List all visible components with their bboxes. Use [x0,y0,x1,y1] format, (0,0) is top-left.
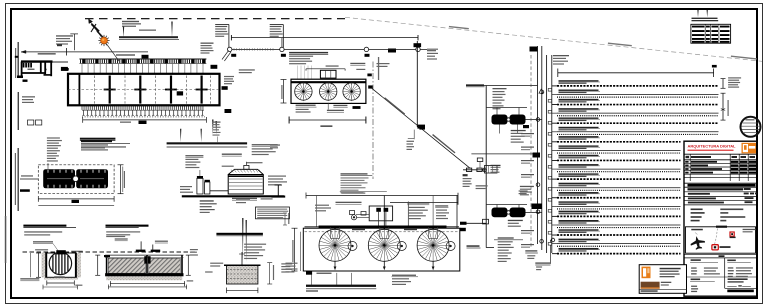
tank section center divider [146,255,148,273]
pozo left vdim [38,253,40,277]
pozo small text above ground [35,249,48,250]
leader text cluster top [122,21,139,22]
basin right label box 3 [225,109,232,113]
tank section riser label 2 [155,241,168,242]
tank section subtext [106,231,140,232]
riser dashed line left [530,55,532,247]
tank section under-shadow stipple [106,277,182,281]
map airplane symbol [689,235,706,251]
pipe run 3 heavy dashed line [557,104,719,106]
aerator fan 1 [295,83,312,100]
pump 2 labels below [508,220,523,221]
riser lower label box [532,204,543,210]
pozo title underlined [23,225,66,227]
tank section bottom dims [110,283,184,285]
pozo tapa label underlined [33,241,53,242]
riser pipe 3 [546,55,548,253]
stamp circle [741,117,761,137]
clarifier gear housing [369,206,392,221]
tee element stem [277,185,279,196]
blower skid dashed outline [38,165,114,194]
bracket 1 labels [728,77,741,78]
revision table header row [684,159,757,161]
clarifier stem verticals [316,196,318,227]
pump 1 drain stems [499,125,501,134]
clarifier small wheel 2 [397,242,406,251]
clarifier housing lines [356,214,369,216]
blower dim text box [72,200,80,203]
digester interconnect pipe [210,190,228,192]
pipe run 8 thin line [557,149,681,151]
ground dashed datum line [23,251,197,253]
label box connector [65,68,69,71]
aerator fan 2 [320,83,337,100]
pretreatment connector channel [53,61,69,63]
digester pump skid left [197,178,203,194]
basin left label box [61,67,68,71]
fence node circle 1 [228,47,232,51]
leader spikes into footing [242,218,243,262]
aerator fan 3 [343,83,360,100]
clarifier upper dim second segment [340,191,387,193]
pipe run 11 heavy dashed line [557,178,681,180]
pipe run 11 label [559,173,599,174]
clarifier labels left rows [336,202,362,203]
terrain line label right [731,56,757,60]
digester detail title underlined [167,142,248,144]
blower unit 1 body [43,169,75,188]
stamp orange logo square [642,267,651,279]
pump 2 discharge to riser [526,211,543,213]
vertical pipe line x417 [416,41,418,127]
stamp small text right of bar [661,282,672,283]
pump 1A body [492,115,508,125]
clarifier deck beam [305,226,460,228]
clarifier small wheel 1 [348,242,357,251]
pipe run 2 label [559,90,599,91]
tank section top black bars [136,250,146,252]
suction box left [460,222,467,225]
tank label box right edge [368,85,373,88]
digester dome [228,169,263,174]
junction bracket and labels [413,130,415,140]
clarifier small wheel 3 [446,242,455,251]
footing anchor rod [241,252,243,265]
aeration basin bottom drops [82,110,203,115]
pipe run 5 label [559,117,599,118]
terrain line label mid2 [608,43,632,47]
north arrow leader diagonal [89,20,119,61]
blower leader stem [47,163,49,169]
tank section left vdim [97,255,99,275]
north arrow strokes [92,24,100,32]
riser pipe 1 [537,46,539,244]
left margin vertical text upper [18,42,19,78]
tank bottom dimension line [289,119,366,121]
blower leader text column [47,137,60,138]
clarifier second dim line [390,201,458,203]
sun symbol orange starburst [98,35,109,46]
pozo black cap [56,250,66,254]
footing right vdim [269,263,271,284]
process vertical tail [485,230,487,248]
basin title subtext [81,146,126,147]
digester left label rows [185,155,203,156]
pipe run 4 thin line [557,112,719,114]
riser mid label box [533,153,541,158]
stamp brown signature bar [641,282,660,289]
pipe run 16 thin line [557,224,681,226]
pozo cylinder circle [49,252,71,274]
riser branch label clusters [521,133,534,248]
basin internal label box [177,91,183,95]
clarifier small rect left [350,211,355,215]
pozo ground stipple right [72,253,81,277]
map red square marker [730,232,734,236]
blower right vertical dim [120,165,122,194]
pipe run 18 thin line [557,243,681,245]
aerator tank labels top right [350,63,365,64]
tank section left outside box [104,255,110,257]
clarifier tank body [303,228,460,271]
leader spike A [123,27,124,38]
footing left texts [210,263,223,264]
long diagonal discharge pipe leader [371,88,470,169]
pipe run 1 heavy dashed line [557,85,719,87]
aerator leader drop lines [298,66,312,80]
basin left small text rows [22,96,35,97]
aerator gearbox [320,70,336,78]
leader cluster 2 cap line [270,24,284,26]
pump 1 labels below [511,130,526,131]
left column rows [691,267,697,268]
logo orange mark [742,143,757,154]
dimension line left with arrow [21,51,148,53]
pipe run 15 label [559,211,599,212]
suction line [467,222,487,224]
pump group 2 label block right [520,186,534,187]
riser pipe 4 [551,55,553,253]
project title strip [684,182,757,184]
aerator tank title underlined long [289,52,328,54]
aerator tank title rows [289,56,313,57]
pump 2A body [492,208,508,218]
stamp bottom row [639,288,686,290]
dimension subtext underlined [38,53,56,54]
footing inner dashed [227,269,258,271]
footing block [227,265,258,284]
pipe run 19 heavy dashed line [557,253,681,255]
pipe run 17 heavy dashed line [557,234,681,236]
digester top-right leader text [252,144,278,145]
map dashed road [715,229,718,245]
left column subheader underlined [691,279,701,281]
dim text near box [120,122,131,123]
aeration basin top tick band [79,59,206,64]
aeration basin inlet channel wall [78,74,80,106]
map box [686,227,756,253]
fence ticks [234,48,273,50]
riser top label box [530,47,538,52]
fence node circle 2 [280,47,284,51]
blower unit internal white ticks [47,170,105,188]
svg-text:ARQUITECTURA DIGITAL: ARQUITECTURA DIGITAL [688,143,737,148]
pipe run 16 label [559,220,599,221]
leader cluster 1 text rows [215,26,227,27]
clarifier bottom left box [306,271,312,275]
clarifier right drop pipe [456,196,458,229]
tee element label [270,144,280,145]
tank section top text [106,236,125,237]
mini table caption underlined [692,18,718,19]
blower dim line 2 [38,204,114,206]
right column signature line [727,285,736,287]
pipe run 5 heavy dashed line [557,122,719,124]
blower left black box [20,189,30,192]
terrain line label mid [449,26,469,29]
leader cluster 2 text rows [270,26,282,27]
basin dotted line under combs [82,116,205,118]
pretreatment outlet boxes [17,76,23,79]
small vdim left of clarifier [284,213,286,225]
clarifier feed vertical [383,196,385,227]
stamp box border [639,265,686,294]
map top right text [743,229,756,230]
pipe run 8 label [559,145,599,146]
label box top [142,55,149,59]
pipe run 8 dotted line [557,152,681,154]
pipe run 14 thin line [557,205,681,207]
mini table leader spikes [697,10,698,17]
junction circles bottom [540,240,544,244]
pipe run 9 label [559,155,599,156]
clarifier rotor 1 [319,229,351,261]
pump 2 coupling circle [507,211,510,214]
center text block underlined [341,173,368,174]
pump 1 stems [496,108,498,115]
small box near terrain line [712,65,717,68]
riser level triangle marker [539,89,543,93]
site dimension line [231,37,418,39]
clarifier title leader stems [310,275,312,285]
dimension text left rows [56,35,73,36]
pozo subtext [24,231,62,232]
mini schedule table [691,24,731,43]
black box on riser upper [523,125,529,128]
blower suction line left [20,178,38,180]
pipe run 2 dotted line [557,96,719,98]
vertical line to bottom label [549,240,551,264]
pipe run 10 dotted line [557,171,681,173]
leader cluster 1 drop line [228,25,230,48]
digester title leader spikes [180,129,181,142]
small text above caption [139,30,156,31]
aerator tank bottom texts [296,105,316,106]
digester ground label underlined [232,198,257,199]
junction circle mid [536,183,540,187]
clarifier left dim lines [294,228,296,271]
footing title underlined [216,233,263,235]
pipe run 4 dotted line [557,115,719,117]
basin right label box 2 [222,86,228,90]
dash-dot line labels [377,63,390,64]
mini table row texts [692,26,705,28]
pozo right text at ground [71,251,83,252]
title block outer box [684,141,757,296]
tank section top slab line [105,254,183,256]
fence to basin diagonal double line [222,50,229,59]
leader spike B [171,22,172,38]
basin title underlined [81,140,112,142]
digester top labels [247,162,263,163]
clarifier left outside text rows [281,263,292,264]
tank section right vdim [187,255,189,275]
pozo pit box [46,253,77,277]
aeration basin internal division walls [104,76,208,104]
left column header underlined [691,259,701,261]
pipe run 1 label [559,80,599,81]
footing far right texts [286,263,298,264]
clarifier labels right rows [407,202,429,203]
blower coupling circle [73,176,79,182]
pipe run 12 dotted line [557,189,681,191]
project rows [688,188,744,190]
tank bottom dim text [320,125,332,127]
tank section bottom slab [105,273,183,276]
clarifier gear stems [378,212,380,227]
aerator tank left vertical dimension [283,80,285,104]
aeration basin internal dashed lanes [68,76,220,104]
digester ground line [182,195,284,197]
pipe run 6 thin line [557,131,719,133]
digester tank body [228,175,263,195]
aerator tank body [291,79,366,103]
pozo bottom-left text underlined [20,278,39,279]
pump 1 coupling circle [507,118,510,121]
blower dim line 1 [38,198,114,200]
digester title label column [213,122,221,123]
left margin vertical text lower-mid [18,92,19,130]
clarifier rotor 3 [417,229,449,261]
pozo below-circle text [54,276,64,277]
info rows scale drawing number [691,209,703,211]
stamp text rows [660,268,681,270]
pipe run 10 label [559,164,599,165]
aeration basin outer walls [68,74,220,106]
pipe run 3 label [559,99,599,100]
right column plano text [728,278,748,280]
basin left tiny boxes [28,120,34,125]
pipe run 6 label [559,127,599,128]
map red box marker [712,245,718,250]
clarifier bottom right text block [392,276,419,278]
leader cluster 1 cap line [215,24,229,26]
revision table grid [684,162,757,164]
pozo ground stipple bottom [44,272,78,280]
small label mid bottom [525,250,537,251]
basin dimension text box [139,121,147,124]
dimension leader cap and drop [70,33,78,35]
riser top labels [553,55,569,56]
map box title on edge [716,226,727,228]
blower suction label [21,175,33,176]
bottom info two columns [684,253,757,255]
pipe run 7 label [559,136,599,137]
pump 2B body [510,208,526,218]
pipe run 13 label [559,192,599,193]
tank label box right edge upper [367,74,371,77]
basin dimension line [83,119,207,121]
drawing number strip [727,290,754,293]
pump 2 junction circle [536,210,540,214]
suction small box [483,219,489,224]
discharge pipe rotated label 1 [384,97,405,115]
pipe run 17 label [559,229,599,230]
equipment rect right of valves [485,166,498,174]
clarifier bottom texts [317,273,332,274]
pipe line bottom box [417,125,425,129]
process header line [466,85,538,87]
blower unit 2 body [76,169,108,188]
valve pair at discharge end [467,168,472,171]
label box on dashdot line [388,49,396,53]
text cluster B [239,69,255,70]
digester top cap [244,165,249,169]
letter B bubble [57,44,62,46]
pipe run 2 thin line [557,94,719,96]
pipe line labels [427,50,436,51]
pozo cylinder vertical bars [53,253,68,274]
right column header underlined [727,260,736,262]
leader spikes under basin [212,120,213,135]
revision table data rows [685,161,688,163]
footing bottom dim [227,289,258,291]
fence label box 3 [365,54,370,57]
pipe run 4 label [559,108,599,109]
clarifier housing circle [351,215,356,220]
tank section outer walls [106,255,108,275]
process underline label bottom left [467,245,480,247]
junction circle at vertical pipe [416,47,420,51]
pipe run 18 label [559,239,599,240]
aerator bridge beam [291,81,366,83]
fence line with node circles [229,48,427,50]
blower detail subtext [81,144,108,145]
pump 2 stems [496,205,498,208]
footing leader texts right [244,244,266,245]
fence label box 2 [281,54,286,57]
tank section hatched cell 2 [149,258,181,273]
pipe run 12 thin line [557,187,681,189]
pipe run 12 label [559,183,599,184]
tank section title underlined [106,225,149,227]
aerator fan center dashdot lines [303,82,351,103]
leader cluster 2 drop line [282,25,284,48]
pozo ground stipple left [42,253,50,277]
manifold dimension line [558,72,714,74]
left column lower rows [691,286,697,287]
basin right label box [211,65,218,69]
digester below-left texts [200,200,214,201]
clarifier gear black box 2 [384,208,389,212]
digester second label underlined [222,154,242,155]
valve riser box [477,158,483,162]
pump group 2 header bar [486,204,527,206]
discharge pipe mid box [419,126,425,129]
pump 1B body [510,115,526,125]
pipe run 18 dotted line [557,245,681,247]
pipe run 14 label [559,201,599,202]
